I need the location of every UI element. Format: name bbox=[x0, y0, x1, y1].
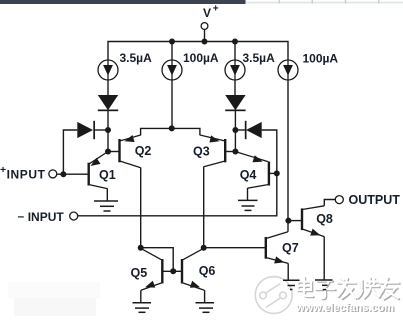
watermark ghost bottom-left bbox=[8, 282, 100, 316]
current source I3 3.5uA bbox=[225, 60, 245, 80]
ruler tick 4 bbox=[378, 0, 379, 4]
transistor Q2 bbox=[120, 135, 141, 168]
junction dot rail-I3 bbox=[232, 39, 238, 45]
svg-text:Q1: Q1 bbox=[99, 168, 116, 182]
junction dot emitter rail bbox=[169, 125, 175, 131]
wire D2 cathode down to node bbox=[234, 110, 236, 151]
terminal +input bbox=[49, 170, 57, 178]
ruler tick 2 bbox=[312, 0, 313, 4]
transistor Q5 bbox=[141, 248, 163, 290]
wire top supply rail bbox=[108, 42, 288, 61]
wire Q3 collector down bbox=[203, 167, 205, 248]
transistor Q6 bbox=[182, 248, 204, 290]
diode D1 vertical bbox=[98, 95, 118, 111]
svg-text:3.5µA: 3.5µA bbox=[120, 51, 153, 65]
ground under Q1 bbox=[94, 201, 118, 211]
svg-text:Q3: Q3 bbox=[193, 145, 210, 159]
svg-text:100µA: 100µA bbox=[303, 52, 339, 66]
junction dot D2-D4 node bbox=[232, 127, 238, 133]
svg-text:Q4: Q4 bbox=[240, 168, 257, 182]
wire Q2 Q3 emitter rail bbox=[141, 128, 200, 135]
wire Q5 emitter stem bbox=[140, 290, 142, 303]
current source I2 100uA bbox=[162, 60, 182, 80]
diode D4 horizontal left bbox=[245, 121, 262, 139]
svg-text:+: + bbox=[213, 4, 219, 15]
terminal V+ bbox=[201, 23, 208, 30]
junction dot Q2 collector node bbox=[138, 245, 144, 251]
svg-text:OUTPUT: OUTPUT bbox=[349, 193, 401, 207]
wire D4 anode to Q4 base branch bbox=[262, 130, 277, 173]
diode D2 vertical bbox=[225, 95, 245, 111]
transistor Q3 bbox=[200, 135, 225, 167]
wire Q8 emitter down bbox=[323, 237, 325, 281]
svg-text:100µA: 100µA bbox=[183, 51, 219, 65]
ground under Q7 bbox=[283, 280, 300, 289]
junction dot rail-V+ bbox=[202, 39, 208, 45]
svg-text:Q8: Q8 bbox=[316, 212, 333, 226]
wire Q6 emitter stem bbox=[204, 290, 206, 303]
svg-text:www.elecfans.com: www.elecfans.com bbox=[295, 302, 394, 314]
junction dot Q4 base bbox=[274, 170, 280, 176]
wire mirror base tie bbox=[141, 248, 174, 272]
wire Q2 collector down bbox=[140, 168, 142, 248]
svg-text:V: V bbox=[203, 6, 211, 20]
watermark logo circle bbox=[255, 277, 292, 314]
junction dot Q8 base node bbox=[285, 218, 291, 224]
wire D1 cathode down to node bbox=[107, 110, 109, 151]
wire Q8 base bbox=[288, 220, 301, 222]
current source I4 100uA bbox=[278, 60, 298, 80]
ground under Q5 bbox=[133, 303, 152, 313]
wire Q7 emitter stem bbox=[287, 263, 289, 280]
terminal output bbox=[335, 196, 343, 204]
terminal -input bbox=[70, 212, 78, 220]
wire Q2 base bbox=[108, 151, 119, 153]
transistor Q8 bbox=[302, 206, 324, 237]
transistor Q7 bbox=[266, 232, 288, 264]
svg-text:Q2: Q2 bbox=[135, 144, 152, 158]
junction dot +input bbox=[60, 171, 66, 177]
svg-text:Q7: Q7 bbox=[282, 241, 299, 255]
transistor Q4 bbox=[236, 152, 269, 189]
svg-text:+: + bbox=[0, 164, 6, 176]
svg-text:–: – bbox=[18, 209, 25, 223]
junction dot D1-D3 node bbox=[105, 127, 111, 133]
wire source2 to emitter rail bbox=[171, 80, 173, 128]
wire Q8 collector to output bbox=[324, 200, 335, 206]
transistor Q1 bbox=[89, 152, 108, 189]
ruler tick 3 bbox=[345, 0, 346, 4]
top-right ruler line bbox=[246, 2, 403, 4]
wire Q5 Q6 base bridge bbox=[163, 270, 182, 272]
top dark toolbar fragment bbox=[0, 0, 246, 4]
watermark chinese text bbox=[298, 277, 399, 299]
wire source3 to diode D2 bbox=[234, 80, 236, 95]
junction dot rail-I2 bbox=[169, 39, 175, 45]
svg-text:INPUT: INPUT bbox=[28, 210, 65, 224]
wire +input to Q1 base bbox=[57, 173, 88, 175]
ground under Q4 bbox=[238, 200, 258, 210]
ground under Q8 bbox=[315, 280, 333, 290]
svg-text:3.5µA: 3.5µA bbox=[243, 51, 276, 65]
wire D4 cathode to node bbox=[235, 129, 245, 131]
wire Q1 collector to ground bbox=[106, 188, 108, 201]
wire D3 cathode to node bbox=[95, 129, 109, 131]
wire D3 anode to +input branch bbox=[63, 130, 77, 174]
wire Q7 base run bbox=[204, 247, 266, 249]
ruler tick 1 bbox=[279, 0, 280, 4]
junction dot Q3 collector node bbox=[201, 245, 207, 251]
junction dot Q4 emitter Q3 base bbox=[232, 149, 238, 155]
svg-text:Q6: Q6 bbox=[199, 264, 216, 278]
wire Q4 base bbox=[270, 172, 277, 174]
wire source3 drop to rail bbox=[234, 42, 236, 61]
junction dot Q1 emitter Q2 base bbox=[105, 149, 111, 155]
diode D3 horizontal right bbox=[77, 121, 95, 139]
current source I1 3.5uA bbox=[98, 60, 118, 80]
wire Q3 base bbox=[226, 151, 236, 153]
wire V+ to rail bbox=[204, 30, 206, 42]
wire Q4 collector to ground bbox=[247, 188, 249, 200]
watermark chinese text bbox=[299, 278, 400, 300]
wire source2 drop to rail bbox=[171, 42, 173, 61]
svg-text:INPUT: INPUT bbox=[7, 168, 46, 182]
wire source1 to diode D1 bbox=[107, 80, 109, 95]
svg-text:Q5: Q5 bbox=[131, 266, 148, 280]
ground under Q6 bbox=[196, 303, 215, 313]
wire Q7 collector up bbox=[287, 221, 289, 232]
junction dot mirror bases bbox=[170, 268, 176, 274]
wire source4 down to Q8 base node bbox=[287, 80, 289, 221]
wire -input run to Q4 base branch bbox=[78, 173, 277, 215]
